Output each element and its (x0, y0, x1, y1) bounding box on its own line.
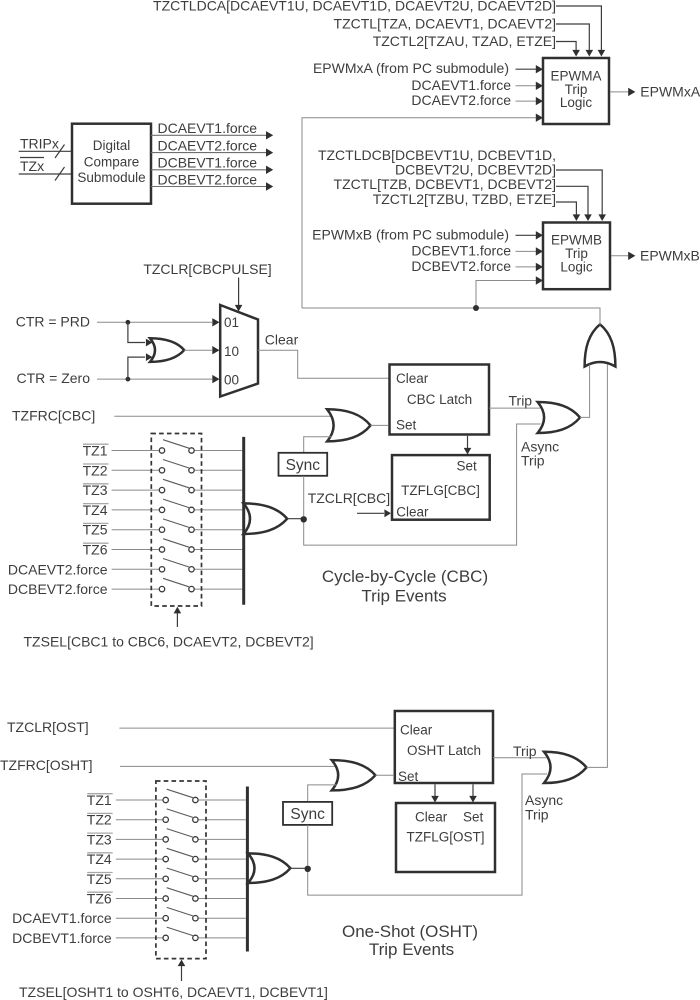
switch SW15 DCAEVT1.force (OSHT select) (12, 907, 246, 926)
svg-text:TZCTLDCA[DCAEVT1U, DCAEVT1D, D: TZCTLDCA[DCAEVT1U, DCAEVT1D, DCAEVT2U, D… (153, 0, 556, 13)
block U13 OSHT Latch (395, 711, 493, 784)
svg-text:Set: Set (463, 810, 484, 825)
switch SW9 TZ1 (OSHT select) (87, 789, 246, 808)
wire node to sync (OSHT) (307, 825, 309, 866)
svg-text:TZ5: TZ5 (83, 522, 108, 538)
switch SW6 TZ6 (CBC select) (83, 539, 243, 558)
svg-text:Trip Events: Trip Events (369, 940, 454, 959)
svg-text:Sync: Sync (286, 457, 321, 474)
wire DCAEVT2.force output (151, 137, 273, 156)
wire TZCTL2 to EPWMB (556, 202, 580, 221)
svg-text:TZCTL2[TZAU, TZAD, ETZE]: TZCTL2[TZAU, TZAD, ETZE] (373, 33, 556, 49)
svg-text:DCBEVT1.force: DCBEVT1.force (411, 242, 511, 258)
wire CTR=Zero branch to OR (128, 353, 153, 379)
node CTR=Zero branch (126, 377, 131, 382)
wire DCAEVT1.force input A (411, 77, 543, 93)
svg-text:Sync: Sync (290, 806, 325, 823)
svg-text:TZ3: TZ3 (87, 831, 112, 847)
wire DCAEVT1.force output (151, 120, 273, 139)
wire CTR=PRD to mux input 01 (97, 318, 220, 326)
svg-text:TZFRC[CBC]: TZFRC[CBC] (12, 408, 95, 424)
switch SW8 DCBEVT2.force (CBC select) (8, 578, 242, 597)
or-gate U10 CBC async trip (538, 402, 580, 433)
svg-text:Trip: Trip (525, 807, 549, 823)
svg-text:Clear: Clear (265, 332, 299, 348)
svg-text:TZCLR[CBCPULSE]: TZCLR[CBCPULSE] (143, 261, 271, 277)
wire OSHT trip feedback to async OR (308, 774, 547, 895)
block U9 Sync (CBC) (279, 453, 328, 476)
svg-text:DCAEVT2.force: DCAEVT2.force (8, 561, 108, 577)
wire OR to mux input 10 (184, 346, 219, 354)
wire TZCTL2 to EPWMA (556, 42, 580, 57)
wire TZSEL select arrow (CBC) (174, 607, 182, 627)
block U7 CBC Latch (390, 365, 490, 435)
wire TZCTL to EPWMA (556, 24, 593, 57)
svg-text:TZCTL[TZA, DCAEVT1, DCAEVT2]: TZCTL[TZA, DCAEVT1, DCAEVT2] (334, 16, 556, 32)
label Async Trip (CBC) (521, 439, 559, 469)
wire node to sync (CBC) (303, 476, 305, 516)
svg-text:Clear: Clear (396, 504, 429, 519)
wire CBC set OR to latch (371, 424, 389, 426)
svg-text:Set: Set (398, 769, 419, 784)
svg-text:Trip: Trip (513, 743, 537, 759)
wire TZCLR[CBCPULSE] select into mux (235, 278, 243, 312)
wire CBC latch set to flag (464, 436, 472, 455)
svg-text:01: 01 (224, 315, 239, 330)
wire EPWMxB output (611, 247, 700, 263)
or-gate U4 trip combine (async trips) (585, 324, 616, 366)
switch SW16 DCBEVT1.force (OSHT select) (12, 927, 246, 946)
or-gate U12 CBC trip events (244, 503, 288, 534)
svg-text:TZFRC[OSHT]: TZFRC[OSHT] (0, 757, 93, 773)
wire TZCLR[OST] to OSHT latch clear (119, 727, 394, 729)
wire DCBEVT2.force input B (411, 258, 543, 274)
svg-text:00: 00 (224, 372, 239, 387)
svg-text:EPWMxA (from PC submodule): EPWMxA (from PC submodule) (313, 60, 509, 76)
svg-text:TZCTL2[TZBU, TZBD, ETZE]: TZCTL2[TZBU, TZBD, ETZE] (373, 191, 556, 207)
svg-text:Trip: Trip (509, 393, 533, 409)
wire TZCTL to EPWMB (556, 186, 592, 221)
dashed selector box TZSEL CBC (151, 434, 201, 607)
svg-text:TZCLR[OST]: TZCLR[OST] (7, 719, 89, 735)
svg-text:Compare: Compare (84, 155, 140, 170)
bus bar CBC OR input (242, 437, 245, 605)
svg-text:TZSEL[CBC1 to CBC6, DCAEVT2, D: TZSEL[CBC1 to CBC6, DCAEVT2, DCBEVT2] (24, 634, 314, 650)
or-gate U16 OSHT async trip (544, 752, 587, 783)
block U11 TZFLG[CBC] flag (392, 455, 490, 520)
title One-Shot (OSHT) Trip Events (342, 922, 478, 959)
svg-text:TRIPx: TRIPx (20, 136, 59, 152)
svg-text:Set: Set (396, 418, 417, 433)
svg-text:OSHT Latch: OSHT Latch (407, 743, 481, 758)
svg-text:EPWMxA: EPWMxA (640, 83, 700, 99)
wire CBC latch Trip output (489, 393, 540, 409)
wire TZCTLDCB to EPWMB (556, 170, 606, 221)
svg-text:TZx: TZx (20, 158, 44, 174)
wire OSHT latch clear to flag (431, 784, 439, 802)
svg-text:TZCTL[TZB, DCBEVT1, DCBEVT2]: TZCTL[TZB, DCBEVT1, DCBEVT2] (334, 176, 556, 192)
switch SW4 TZ4 (CBC select) (83, 499, 243, 518)
title Cycle-by-Cycle (CBC) Trip Events (322, 567, 488, 606)
wire sync to CBC set OR (304, 437, 332, 453)
block U15 Sync (OSHT) (283, 802, 332, 825)
switch SW11 TZ3 (OSHT select) (87, 829, 246, 848)
svg-text:TZ1: TZ1 (83, 443, 108, 459)
svg-text:DCBEVT1.force: DCBEVT1.force (158, 155, 258, 171)
wire CBC trip feedback to async OR (304, 424, 541, 545)
block U3 EPWMB Trip Logic (543, 223, 610, 290)
svg-text:DCBEVT2.force: DCBEVT2.force (8, 581, 108, 597)
wire TZCTLDCA to EPWMA (556, 6, 605, 57)
wire DCBEVT1.force input B (411, 242, 543, 258)
or-gate U6 PRD+Zero (150, 338, 184, 362)
wire mux Clear to CBC latch (258, 350, 389, 378)
svg-text:Logic: Logic (560, 95, 593, 110)
wire OSHT async OR to trip OR (587, 365, 608, 768)
wire OSHT latch set to flag (469, 784, 477, 802)
svg-text:TZFLG[CBC]: TZFLG[CBC] (401, 483, 480, 498)
wire OSHT latch Trip output (493, 743, 547, 759)
wire TRIPx input bus (19, 136, 71, 159)
svg-text:Set: Set (457, 459, 478, 474)
svg-text:DCBEVT1.force: DCBEVT1.force (12, 930, 112, 946)
svg-text:DCAEVT2.force: DCAEVT2.force (411, 92, 511, 108)
svg-text:DCAEVT1.force: DCAEVT1.force (158, 120, 258, 136)
svg-text:Clear: Clear (415, 810, 448, 825)
svg-text:TZ4: TZ4 (87, 851, 112, 867)
wire CBC OR output to node (287, 518, 305, 520)
wire OSHT set OR to latch (375, 774, 394, 776)
svg-text:Trip: Trip (521, 453, 545, 469)
svg-text:CTR = Zero: CTR = Zero (16, 370, 90, 386)
svg-text:Submodule: Submodule (77, 170, 145, 185)
wire TZFRC[CBC] to set OR (114, 415, 333, 417)
switch SW2 TZ2 (CBC select) (83, 460, 243, 479)
svg-text:DCBEVT2.force: DCBEVT2.force (158, 171, 258, 187)
node trip distribution junction (473, 305, 479, 311)
svg-text:EPWMxB: EPWMxB (640, 247, 700, 263)
wire TZFRC[OSHT] to set OR (120, 765, 337, 767)
svg-text:TZ3: TZ3 (83, 482, 108, 498)
svg-text:Cycle-by-Cycle (CBC): Cycle-by-Cycle (CBC) (322, 567, 488, 586)
svg-text:TZ2: TZ2 (83, 462, 108, 478)
label Async Trip (OSHT) (525, 792, 563, 823)
block U2 EPWMA Trip Logic (543, 58, 609, 124)
svg-text:DCBEVT2.force: DCBEVT2.force (411, 258, 511, 274)
or-gate U18 OSHT trip events (248, 853, 290, 883)
wire CBC async OR to trip OR (580, 365, 590, 418)
wire TZCLR[CBC] to flag clear (357, 509, 391, 517)
or-gate U8 CBC set (327, 409, 370, 441)
switch SW10 TZ2 (OSHT select) (87, 809, 246, 828)
switch SW3 TZ3 (CBC select) (83, 479, 243, 498)
svg-text:CTR = PRD: CTR = PRD (16, 314, 90, 330)
switch SW12 TZ4 (OSHT select) (87, 848, 246, 867)
dashed selector box TZSEL OSHT (156, 781, 206, 959)
svg-text:EPWMxB (from PC submodule): EPWMxB (from PC submodule) (312, 226, 509, 242)
svg-text:DCAEVT2.force: DCAEVT2.force (158, 137, 258, 153)
wire EPWMxB from PC submodule input (312, 226, 543, 242)
wire CTR=Zero to mux input 00 (97, 375, 220, 383)
switch SW5 TZ5 (CBC select) (83, 519, 243, 538)
wire EPWMxA output (611, 83, 700, 99)
svg-text:TZCLR[CBC]: TZCLR[CBC] (308, 490, 390, 506)
block U1 Digital Compare Submodule (72, 124, 151, 204)
wire DCBEVT2.force output (151, 171, 273, 190)
svg-text:TZFLG[OST]: TZFLG[OST] (406, 830, 484, 845)
node CBC trip (301, 516, 307, 522)
svg-text:DCAEVT1.force: DCAEVT1.force (411, 77, 511, 93)
svg-text:TZ6: TZ6 (87, 891, 112, 907)
wire CTR=PRD branch to OR (128, 322, 153, 346)
svg-text:Clear: Clear (396, 371, 429, 386)
wire TZSEL select arrow (OSHT) (178, 960, 186, 982)
node OSHT trip (305, 866, 311, 872)
switch SW1 TZ1 (CBC select) (83, 440, 243, 459)
mux U5 CBC clear-pulse select (220, 305, 258, 397)
wire trip OR output to trip logic blocks (302, 308, 600, 325)
switch SW7 DCAEVT2.force (CBC select) (8, 559, 242, 578)
node CTR=PRD branch (126, 320, 131, 325)
svg-text:TZ2: TZ2 (87, 812, 112, 828)
bus bar OSHT OR input (246, 787, 249, 952)
svg-text:Trip Events: Trip Events (361, 587, 446, 606)
svg-text:10: 10 (224, 344, 239, 359)
svg-text:TZCTLDCB[DCBEVT1U, DCBEVT1D,: TZCTLDCB[DCBEVT1U, DCBEVT1D, (318, 147, 556, 163)
wire EPWMxA from PC submodule input (313, 60, 543, 76)
svg-text:Digital: Digital (93, 138, 131, 153)
wire TZx input bus (active low) (19, 158, 71, 181)
svg-text:TZ1: TZ1 (87, 792, 112, 808)
wire trip to EPWMB (branch from node) (476, 276, 543, 308)
svg-text:TZ6: TZ6 (83, 542, 108, 558)
switch SW14 TZ6 (OSHT select) (87, 888, 246, 907)
wire OSHT OR output to node (290, 867, 309, 869)
switch SW13 TZ5 (OSHT select) (87, 868, 246, 887)
wire sync to OSHT set OR (308, 785, 337, 802)
svg-text:Clear: Clear (400, 723, 433, 738)
svg-text:Async: Async (525, 792, 563, 808)
svg-text:TZ5: TZ5 (87, 871, 112, 887)
wire DCBEVT1.force output (151, 155, 273, 174)
svg-text:DCAEVT1.force: DCAEVT1.force (12, 910, 112, 926)
block U17 TZFLG[OST] flag (396, 803, 495, 872)
svg-text:TZ4: TZ4 (83, 502, 108, 518)
svg-text:TZSEL[OSHT1 to OSHT6, DCAEVT1,: TZSEL[OSHT1 to OSHT6, DCAEVT1, DCBEVT1] (19, 984, 328, 1000)
or-gate U14 OSHT set (332, 760, 376, 790)
wire trip to EPWMA (from OR gate) (302, 114, 543, 309)
wire DCAEVT2.force input A (411, 92, 543, 108)
svg-text:CBC Latch: CBC Latch (407, 392, 472, 407)
svg-text:Logic: Logic (560, 259, 593, 274)
svg-text:One-Shot (OSHT): One-Shot (OSHT) (342, 922, 478, 941)
